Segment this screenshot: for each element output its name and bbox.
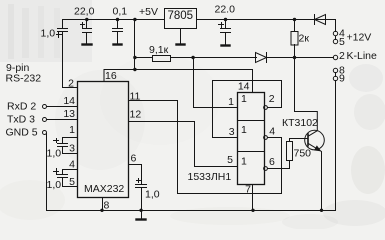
junction 22,0 on +5V rail (85, 18, 88, 21)
svg-text:750: 750 (294, 148, 312, 160)
wire pin6 to resistor 750 (268, 161, 290, 169)
junction pin8 on GND rail (100, 209, 103, 212)
junction 9,1k left (133, 56, 136, 59)
wire +12V rail (197, 20, 336, 32)
node pin9 GND (333, 76, 337, 80)
capacitor 1,0 (pins 1-3) (54, 138, 78, 154)
resistor 9,1k (153, 56, 171, 62)
resistor 2k pull-up (291, 20, 298, 58)
svg-text:K-Line: K-Line (347, 50, 378, 62)
node pin2 K-Line (333, 55, 337, 59)
svg-text:RS-232: RS-232 (6, 73, 42, 85)
svg-text:5: 5 (227, 154, 233, 166)
wire RxD to pin14 (47, 106, 78, 108)
svg-text:3: 3 (69, 142, 75, 154)
wire K-Line (267, 57, 334, 59)
diode VD2 (+12V input) (315, 15, 326, 25)
svg-text:5: 5 (69, 176, 75, 188)
ground (83, 43, 92, 45)
IC MAX232 body (78, 82, 129, 198)
svg-text:1,0: 1,0 (47, 179, 62, 191)
svg-text:2: 2 (269, 93, 275, 105)
svg-text:9: 9 (339, 72, 345, 84)
svg-text:1: 1 (241, 124, 247, 136)
wire MAX232 pin2 lead (63, 32, 78, 88)
ground (222, 44, 230, 46)
gate DD1.1 output bubble pin2 (264, 106, 268, 110)
svg-text:КТ3102: КТ3102 (282, 117, 318, 129)
ground (114, 43, 122, 45)
capacitor 1,0 (V+ to +5V) (57, 20, 68, 38)
gate DD1.3 output bubble pin6 (264, 167, 268, 171)
svg-text:1: 1 (69, 124, 75, 136)
node pin8 GND (333, 68, 337, 72)
junction emitter on GND rail (320, 209, 323, 212)
wire +5V node vertical (134, 20, 136, 70)
svg-text:4: 4 (69, 158, 75, 170)
svg-text:8: 8 (104, 200, 110, 212)
svg-text:+5V: +5V (139, 6, 158, 18)
wire MAX232 pin11 to DD1 pin4 net (129, 101, 282, 194)
svg-text:1,0: 1,0 (41, 28, 56, 40)
wire pins 8-9 link (335, 73, 337, 77)
svg-text:1: 1 (241, 156, 247, 168)
IC 1533LN1 body (238, 93, 265, 185)
junction pin7 on GND rail (251, 209, 254, 212)
svg-text:1,0: 1,0 (47, 148, 62, 160)
svg-text:GND 5: GND 5 (6, 126, 38, 138)
node TxD 3 (43, 118, 47, 122)
svg-text:2к: 2к (299, 33, 310, 45)
ground (177, 43, 185, 45)
wire pins 4-5 link (335, 37, 337, 40)
svg-text:MAX232: MAX232 (84, 183, 124, 195)
svg-text:22,0: 22,0 (74, 6, 95, 18)
junction 9,1k right / DD1 pin1 (191, 56, 194, 59)
svg-text:RxD 2: RxD 2 (7, 101, 36, 113)
capacitor 0,1 (113, 20, 123, 44)
wire Vcc to MAX232 pin16 and DD1 pin14 (104, 70, 253, 93)
wire 9,1k to diode VD1 (171, 57, 257, 59)
svg-text:2: 2 (339, 50, 345, 62)
wire +5V rail (63, 19, 165, 21)
wire DD1 pin7 to GND (252, 185, 254, 211)
svg-text:0,1: 0,1 (113, 6, 128, 18)
svg-text:9,1к: 9,1к (149, 44, 169, 56)
transistor VT1 KT3102 (295, 58, 325, 211)
svg-text:4: 4 (269, 126, 275, 138)
junction 0,1 on +5V rail (116, 18, 119, 21)
ground (137, 211, 146, 220)
node RxD 2 (43, 105, 47, 109)
wire MAX232 pin12 to DD1 pin5 (129, 122, 238, 167)
junction Vcc wire (133, 68, 136, 71)
junction 2k on +12V rail (293, 18, 296, 21)
svg-text:3: 3 (229, 126, 235, 138)
resistor 750 (287, 142, 293, 161)
node GND 5 (43, 131, 47, 135)
svg-text:1533ЛН1: 1533ЛН1 (188, 171, 232, 183)
svg-text:14: 14 (238, 81, 250, 93)
wire pin9 to GND rail (335, 81, 337, 211)
svg-text:7805: 7805 (168, 10, 194, 22)
svg-text:13: 13 (63, 108, 75, 120)
junction 22.0 on +12V rail (224, 18, 227, 21)
svg-text:11: 11 (130, 90, 141, 102)
wire 9,1k left lead (135, 57, 153, 59)
wire pin4 lead (268, 137, 282, 139)
svg-text:+12V: +12V (347, 31, 372, 43)
regulator 7805 (165, 9, 197, 29)
node pin5 +12V (333, 39, 337, 43)
wire 7805 ground lead (180, 29, 182, 44)
svg-text:12: 12 (130, 109, 142, 121)
junction cap on GND rail (139, 209, 142, 212)
svg-text:1: 1 (241, 93, 247, 105)
svg-text:TxD 3: TxD 3 (7, 113, 35, 125)
node pin4 +12V (333, 31, 337, 35)
wire TxD to pin13 (47, 119, 78, 121)
gate DD1.2 output bubble pin4 (264, 136, 268, 140)
capacitor 22.0 (+12V filter) (219, 20, 231, 45)
junction K-line / collector (293, 56, 296, 59)
svg-text:1,0: 1,0 (145, 189, 160, 201)
svg-text:22.0: 22.0 (215, 3, 236, 15)
capacitor 22,0 (+5V filter) (81, 20, 92, 44)
wire 9,1k node to DD1 pin1 (194, 58, 238, 108)
wire pin2 to DD1 pin3 (213, 81, 282, 138)
svg-text:14: 14 (63, 95, 75, 107)
wire 750 to base (290, 139, 309, 142)
wire GND5 to bottom rail (46, 134, 48, 211)
svg-text:1: 1 (228, 96, 234, 108)
svg-text:16: 16 (105, 70, 117, 82)
junction +5V node on rail (133, 18, 136, 21)
capacitor 1,0 (pin 6 to GND) (129, 165, 147, 211)
svg-text:6: 6 (131, 153, 137, 165)
wire bottom GND rail (47, 210, 336, 212)
svg-text:6: 6 (269, 156, 275, 168)
svg-text:5: 5 (339, 36, 345, 48)
capacitor 1,0 (pins 4-5) (54, 169, 78, 187)
diode VD1 (K-line sense) (256, 53, 267, 63)
svg-text:7: 7 (245, 183, 251, 195)
wire MAX232 pin8 lead (102, 198, 104, 211)
svg-text:2: 2 (68, 78, 74, 90)
